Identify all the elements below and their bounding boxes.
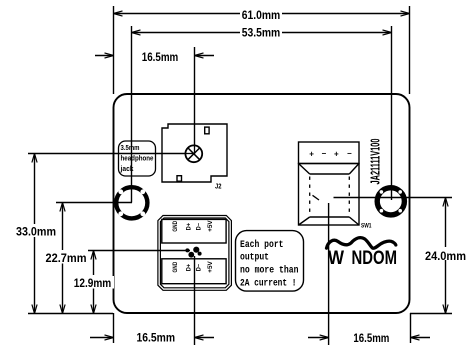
svg-text:16.5mm: 16.5mm — [353, 331, 389, 345]
svg-text:D+: D+ — [187, 263, 193, 271]
svg-text:3.5mm: 3.5mm — [121, 145, 140, 152]
svg-text:D−: D− — [197, 223, 203, 231]
svg-text:16.5mm: 16.5mm — [137, 330, 176, 344]
svg-text:D+: D+ — [187, 223, 193, 231]
svg-text:SW1: SW1 — [361, 224, 372, 230]
svg-text:JA21111V100: JA21111V100 — [369, 138, 383, 184]
svg-text:headphone: headphone — [121, 156, 154, 163]
svg-text:22.7mm: 22.7mm — [46, 251, 87, 265]
svg-text:GND: GND — [173, 261, 179, 272]
svg-text:output: output — [240, 253, 269, 264]
svg-text:53.5mm: 53.5mm — [242, 26, 281, 40]
svg-text:J2: J2 — [215, 184, 222, 191]
svg-text:Each port: Each port — [240, 239, 284, 251]
svg-text:+5V: +5V — [208, 220, 214, 231]
svg-text:24.0mm: 24.0mm — [425, 249, 466, 263]
svg-text:33.0mm: 33.0mm — [16, 225, 56, 239]
svg-text:61.0mm: 61.0mm — [242, 8, 281, 22]
svg-text:W: W — [328, 248, 344, 269]
svg-text:−: − — [322, 149, 327, 158]
svg-text:no more than: no more than — [240, 264, 299, 276]
svg-text:+: + — [309, 150, 314, 159]
svg-text:D−: D− — [197, 263, 203, 271]
svg-text:12.9mm: 12.9mm — [74, 276, 112, 290]
svg-text:2A current !: 2A current ! — [240, 278, 297, 289]
svg-text:+: + — [334, 150, 339, 159]
svg-text:−: − — [347, 149, 352, 158]
svg-text:+5V: +5V — [208, 261, 214, 272]
svg-text:jack: jack — [120, 166, 134, 173]
svg-text:NDOM: NDOM — [352, 248, 398, 269]
svg-text:16.5mm: 16.5mm — [142, 50, 179, 64]
svg-text:GND: GND — [173, 220, 179, 231]
